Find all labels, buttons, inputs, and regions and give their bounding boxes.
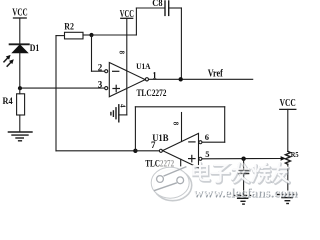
wire node to C8 — [92, 8, 166, 35]
ground (under R4) — [8, 132, 32, 141]
ground (under R5) — [278, 195, 297, 204]
wire pin4 to side ground — [119, 114, 127, 116]
U1B power stub pin 8 — [181, 113, 183, 142]
watermark logo circle — [151, 167, 192, 201]
svg-text:1: 1 — [152, 70, 157, 80]
node Vref/C8 — [179, 77, 183, 81]
svg-text:R2: R2 — [64, 22, 74, 32]
wire node to pin3 — [20, 87, 105, 89]
svg-text:U1A: U1A — [136, 61, 151, 71]
resistor R2 — [65, 32, 84, 39]
svg-text:Vref: Vref — [208, 68, 223, 79]
svg-text:R5: R5 — [291, 150, 299, 159]
node R2/pin2/C8 — [89, 33, 93, 37]
svg-text:TLC2272: TLC2272 — [137, 88, 167, 98]
feedback wire pin6 loop — [135, 107, 224, 151]
svg-text:C8: C8 — [152, 0, 163, 8]
op-amp U1A — [105, 63, 149, 97]
svg-text:VCC: VCC — [120, 9, 134, 20]
svg-text:D1: D1 — [30, 43, 40, 53]
U1B power stub pin 4 — [180, 159, 182, 166]
wire R4 to ground — [19, 115, 21, 132]
svg-text:5: 5 — [205, 149, 209, 159]
svg-text:8: 8 — [172, 122, 179, 126]
svg-text:VCC: VCC — [12, 8, 28, 19]
svg-text:7: 7 — [151, 140, 156, 150]
power VCC left — [14, 18, 27, 44]
wire R2 right to node — [83, 34, 92, 36]
op-amp U1B — [159, 133, 202, 167]
capacitor C9 — [239, 159, 249, 196]
wire R5 to ground — [287, 164, 289, 194]
svg-text:4: 4 — [119, 104, 127, 108]
wire D1 to node — [19, 53, 21, 88]
node U1B out / R2 / feedback — [133, 149, 137, 153]
capacitor C8 — [165, 1, 169, 15]
svg-text:3: 3 — [98, 80, 103, 90]
capacitor C9 plates (ghost through watermark) — [239, 162, 249, 174]
node pin5/C9/R5 — [241, 157, 245, 161]
power VCC mid — [121, 18, 133, 115]
wire U1A output / Vref — [149, 78, 253, 80]
watermark chinese text — [194, 163, 290, 183]
photodiode D1 — [4, 44, 29, 66]
svg-text:www.elecfans.com: www.elecfans.com — [193, 185, 297, 200]
wire node to pin 2 — [92, 35, 105, 71]
ground (sideways, U1A pin 4) — [111, 105, 119, 122]
watermark url text — [193, 185, 298, 201]
wire C8 to Vref node — [169, 8, 182, 79]
node D1/R4/pin3 — [18, 86, 22, 90]
ground (under C9) — [233, 195, 253, 204]
wire node to R4 — [19, 88, 21, 94]
R5 wiper arrow — [281, 156, 286, 161]
resistor R4 — [17, 94, 25, 115]
wire pin5 to R5 wiper — [202, 158, 281, 160]
svg-text:8: 8 — [118, 51, 125, 55]
svg-text:VCC: VCC — [280, 98, 296, 109]
svg-text:2: 2 — [98, 63, 103, 73]
svg-text:R4: R4 — [3, 96, 14, 106]
potentiometer R5 — [285, 151, 290, 164]
power VCC right — [280, 109, 296, 151]
wire node to pin 7 — [135, 150, 159, 152]
svg-text:6: 6 — [205, 132, 209, 142]
wire R2 left down to U1B output — [56, 36, 135, 151]
